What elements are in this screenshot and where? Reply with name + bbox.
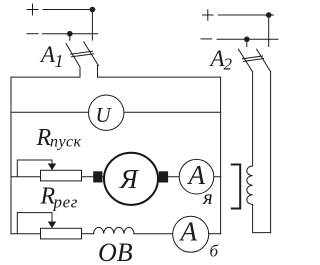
switch A1 left blade <box>66 44 80 78</box>
node plus A2 junction <box>266 12 272 18</box>
svg-text:2: 2 <box>224 55 233 74</box>
wire bottom line right <box>134 233 210 235</box>
svg-text:А: А <box>179 217 198 247</box>
resistor Rpusk <box>41 170 82 181</box>
label Rreg <box>40 184 78 212</box>
svg-text:пуск: пуск <box>50 134 82 151</box>
switch A2 right blade <box>257 49 271 72</box>
switch A2 left blade <box>238 49 252 72</box>
wire top left segment <box>11 76 80 78</box>
ammeter A_v circle <box>173 216 209 252</box>
inductor field winding <box>247 166 253 204</box>
wire plus A2 <box>219 14 274 16</box>
wire minus contact tick A1 <box>69 34 71 41</box>
wire plus A1 <box>43 9 95 11</box>
wire field bottom <box>253 204 271 232</box>
label Rpusk <box>36 125 82 151</box>
wire minus A2 <box>217 38 278 40</box>
motor armature YA <box>104 153 158 205</box>
node plus A1 junction <box>90 7 96 13</box>
wire armature line <box>11 176 221 178</box>
plus terminal A1 <box>27 4 38 15</box>
svg-text:Я: Я <box>119 164 139 194</box>
wire field left vertical <box>252 72 254 166</box>
wire Rpusk wiper branch <box>17 160 52 177</box>
label A1 <box>39 42 64 71</box>
wire left bus <box>10 77 12 234</box>
brush right (armature) <box>159 171 168 182</box>
brush left (armature) <box>93 171 102 182</box>
rheostat Rreg arrow <box>51 213 53 221</box>
node minus A1 junction <box>67 31 73 37</box>
svg-text:рег: рег <box>53 193 78 212</box>
minus terminal A1 <box>27 33 38 35</box>
wire minus contact tick A2 <box>246 39 248 46</box>
switch A1 crossbar <box>71 51 94 57</box>
wire field right vertical <box>270 72 272 233</box>
wire plus contact vertical A1 <box>91 10 93 41</box>
ammeter A_ya circle <box>179 159 214 194</box>
svg-text:ОВ: ОВ <box>98 238 133 265</box>
inductor OV winding <box>94 227 134 233</box>
svg-text:я: я <box>202 185 213 209</box>
svg-text:б: б <box>210 242 219 261</box>
svg-text:1: 1 <box>55 51 64 71</box>
wire bottom line left <box>11 233 94 235</box>
wire voltmeter line <box>11 111 221 113</box>
svg-text:А: А <box>39 42 56 67</box>
rheostat Rpusk arrow <box>51 160 53 164</box>
minus terminal A2 <box>201 38 212 40</box>
wire plus contact vertical A2 <box>268 15 270 47</box>
wire minus A1 <box>43 33 98 35</box>
label A2 <box>209 46 233 74</box>
field core bracket <box>232 165 240 209</box>
wire A_v to right bus <box>209 233 221 235</box>
switch A2 crossbar <box>243 56 264 61</box>
plus terminal A2 <box>203 10 214 21</box>
switch A1 right blade <box>84 42 99 77</box>
node minus A2 junction <box>244 37 250 43</box>
resistor Rreg <box>41 228 82 239</box>
wire top right segment <box>98 76 221 78</box>
wire right bus <box>220 77 222 234</box>
svg-text:U: U <box>96 103 113 127</box>
wire Rreg wiper branch <box>17 213 52 234</box>
voltmeter U circle <box>89 95 124 130</box>
